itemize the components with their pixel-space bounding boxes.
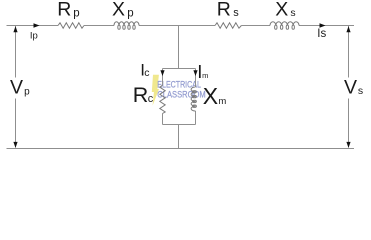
svg-text:Ip: Ip [30, 30, 38, 41]
svg-text:p: p [127, 8, 133, 20]
svg-text:m: m [218, 96, 226, 107]
svg-text:V: V [10, 76, 23, 98]
svg-text:X: X [203, 83, 218, 109]
svg-text:c: c [148, 93, 154, 105]
svg-text:s: s [358, 85, 363, 97]
svg-text:s: s [233, 7, 239, 19]
svg-text:p: p [73, 8, 79, 20]
svg-text:R: R [57, 0, 71, 21]
svg-text:p: p [24, 87, 30, 98]
svg-text:s: s [290, 7, 295, 19]
svg-text:X: X [112, 0, 125, 21]
svg-text:R: R [133, 83, 149, 107]
svg-text:R: R [217, 0, 231, 21]
svg-text:X: X [275, 0, 288, 21]
svg-text:Is: Is [317, 28, 326, 40]
svg-text:m: m [202, 71, 208, 80]
svg-text:V: V [344, 76, 357, 98]
svg-text:c: c [144, 67, 149, 79]
